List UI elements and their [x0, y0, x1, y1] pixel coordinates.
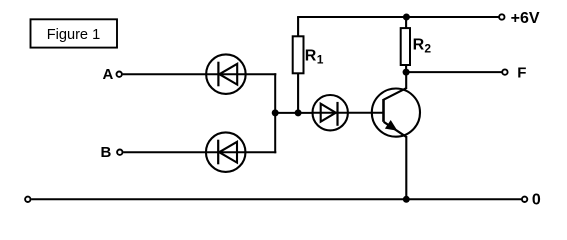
diode D2: [205, 132, 246, 172]
svg-text:A: A: [103, 66, 114, 83]
svg-text:2: 2: [424, 41, 431, 55]
svg-text:+6V: +6V: [511, 10, 540, 27]
svg-text:1: 1: [317, 52, 324, 66]
wire mid to D3: [275, 112, 312, 114]
wire D1 to junction column: [246, 73, 276, 75]
node +6V terminal: [499, 10, 540, 27]
node B terminal: [101, 144, 123, 161]
svg-text:F: F: [517, 65, 526, 82]
node A terminal: [103, 66, 122, 83]
node 0 terminal: [522, 192, 541, 209]
node junction dot: [272, 109, 279, 116]
svg-text:Figure 1: Figure 1: [47, 27, 101, 43]
wire to F: [406, 71, 502, 73]
wire B to D2: [123, 151, 206, 153]
transistor Q1: [372, 88, 420, 137]
wire bottom rail: [31, 198, 521, 200]
wire top rail: [297, 16, 498, 18]
node emitter junction dot: [403, 196, 410, 203]
svg-text:0: 0: [532, 192, 541, 209]
wire D3 to base: [348, 112, 383, 114]
wire emitter: [405, 136, 407, 199]
node bottom-left terminal: [25, 197, 30, 202]
node top rail junction dot: [403, 14, 410, 21]
node R1 bottom junction dot: [295, 109, 302, 116]
wire collector: [405, 72, 407, 89]
diode D3: [312, 95, 348, 130]
resistor R1: [293, 17, 324, 113]
svg-text:R: R: [413, 36, 425, 53]
node F terminal: [502, 65, 526, 82]
wire D2 to junction column: [246, 151, 276, 153]
wire junction column: [274, 73, 276, 153]
resistor R2: [401, 17, 432, 72]
figure label box: [31, 19, 118, 47]
svg-text:B: B: [101, 144, 112, 161]
node R2 bottom junction dot: [403, 69, 410, 76]
svg-text:R: R: [305, 47, 317, 64]
diode D1: [206, 54, 247, 94]
wire A to D1: [123, 73, 206, 75]
